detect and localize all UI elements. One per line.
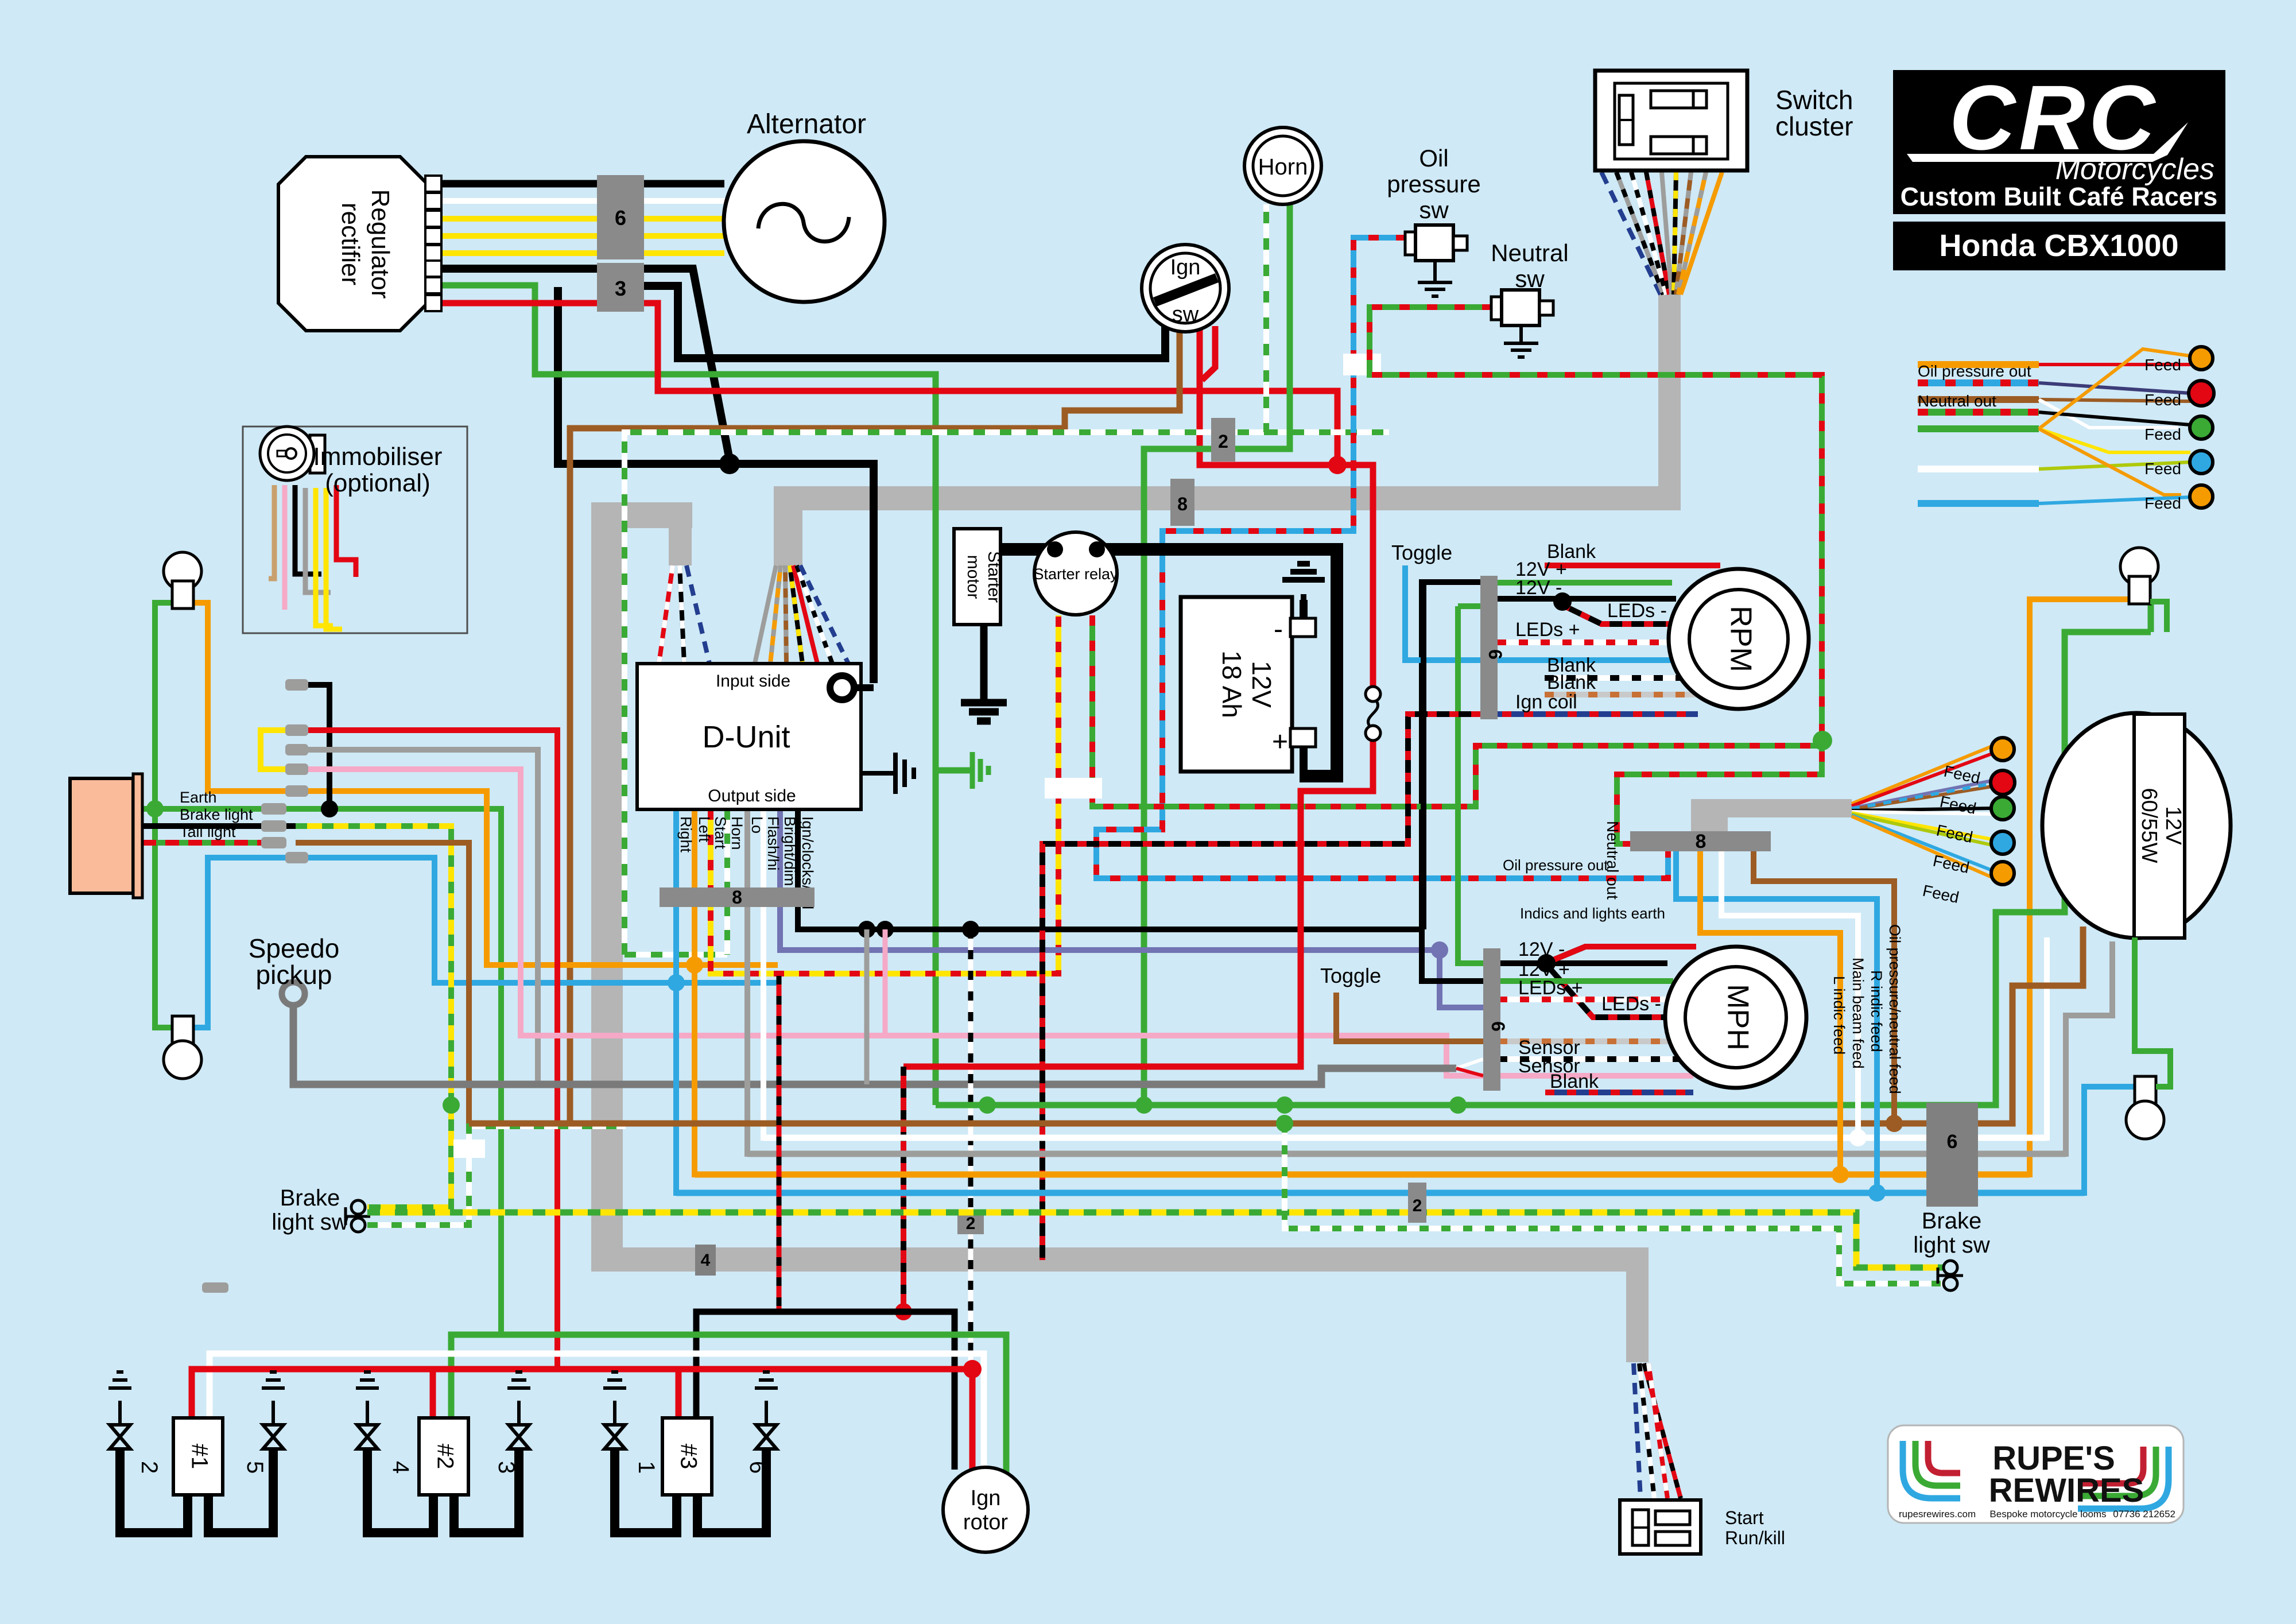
svg-text:Honda CBX1000: Honda CBX1000 — [1939, 228, 2178, 263]
svg-text:(optional): (optional) — [325, 469, 430, 497]
wire: RPM 12V- black with LED branch — [1497, 599, 1679, 624]
svg-text:12V: 12V — [1247, 661, 1277, 708]
CRC logo black box — [1893, 70, 2225, 214]
svg-text:#3: #3 — [676, 1444, 701, 1470]
svg-text:Blank: Blank — [1547, 672, 1596, 693]
wire: regulator black 2 with diagonal to D-unit terminal — [441, 269, 730, 463]
svg-text:sw: sw — [1515, 265, 1545, 292]
connector 4 on bottom trunk — [695, 1245, 716, 1276]
svg-text:#1: #1 — [187, 1444, 212, 1470]
connector 2 on indic buses — [1408, 1183, 1426, 1223]
black coil bus — [696, 1312, 955, 1470]
D-Unit box — [637, 664, 861, 809]
MPH gauge — [1665, 947, 1806, 1088]
top-right indicator bulb — [2120, 548, 2158, 586]
svg-text:3: 3 — [615, 277, 626, 300]
red drop to ign rotor — [969, 1369, 976, 1470]
speedo cable fan to MPH connector — [1456, 1059, 1483, 1068]
long bus: green indics and lights earth — [936, 602, 2151, 1105]
svg-text:Neutral out: Neutral out — [1604, 821, 1622, 900]
svg-text:Blank: Blank — [1550, 1071, 1599, 1092]
wire: starter motor to relay thick black — [1000, 543, 1055, 556]
svg-text:RPM: RPM — [1724, 606, 1757, 672]
wire: regulator green — [441, 285, 936, 1105]
D-unit ring terminal — [830, 676, 854, 700]
D-unit input fan from stub 2 — [755, 565, 848, 664]
svg-text:6: 6 — [1485, 649, 1506, 660]
svg-text:12V -: 12V - — [1518, 939, 1565, 960]
battery ground — [1282, 564, 1325, 618]
svg-text:Starter: Starter — [984, 551, 1003, 603]
svg-text:Neutral: Neutral — [1491, 239, 1568, 266]
svg-text:6: 6 — [1947, 1131, 1958, 1153]
wire: regulator yellow 3 to alternator — [441, 250, 724, 256]
long bus: white/green tail light — [1285, 1123, 1946, 1284]
svg-text:Output side: Output side — [708, 786, 796, 805]
wire: battery positive red feed — [903, 735, 1373, 1067]
wire: MPH 12V+ green — [1498, 978, 1673, 984]
wire: MPH 12V- black with branches — [1498, 947, 1696, 1017]
connector 6 (regulator/alternator) — [597, 175, 644, 259]
svg-text:L indic feed: L indic feed — [1830, 976, 1848, 1055]
svg-text:2: 2 — [966, 1214, 976, 1233]
wire: yellow U stub — [261, 730, 285, 769]
feed legend 2 fan wires — [1852, 746, 1992, 877]
svg-text:-: - — [1274, 614, 1283, 645]
svg-text:Regulator: Regulator — [366, 189, 394, 299]
cylinder 1 plug leads — [120, 1449, 188, 1533]
wire: black 12V- feed left of RPM connector — [1421, 582, 1426, 929]
feed legend 1: left stubs — [1918, 361, 2039, 368]
speedo pickup ring — [282, 982, 305, 1005]
wire: regulator white to alternator — [441, 198, 726, 204]
toggle switch (main) — [1366, 687, 1380, 701]
tail light unit — [70, 778, 133, 893]
D-unit input fan from stub 1 — [659, 565, 709, 664]
horn circle — [1244, 127, 1321, 204]
feed legend 2 labels — [1921, 762, 1982, 907]
svg-text:Ign: Ign — [971, 1486, 1001, 1510]
svg-text:rotor: rotor — [963, 1510, 1008, 1534]
svg-text:D-Unit: D-Unit — [702, 720, 790, 754]
ign switch key bar — [1155, 278, 1217, 302]
svg-text:Feed: Feed — [2144, 356, 2181, 374]
bullet connectors left — [261, 679, 308, 863]
svg-text:Brake: Brake — [280, 1185, 340, 1211]
D-unit output: Bright/dim purple — [780, 809, 1483, 1007]
wire: MPH toggle brown — [1336, 993, 1483, 1041]
D-unit output: Start yellow/red — [711, 615, 1058, 974]
spark plug 6 — [755, 1372, 778, 1425]
wire: MPH blank navy/red — [1545, 1090, 1693, 1095]
oil pressure sw body — [1405, 232, 1417, 255]
svg-text:Feed: Feed — [2144, 391, 2181, 409]
starter motor ground — [961, 625, 1007, 721]
svg-text:Custom Built Café Racers: Custom Built Café Racers — [1901, 182, 2218, 211]
svg-text:Oil pressure/neutral feed: Oil pressure/neutral feed — [1886, 924, 1903, 1094]
wire: red ign switch second stub — [1202, 326, 1215, 380]
svg-text:cluster: cluster — [1775, 111, 1853, 141]
fuse white box on oil pressure wire — [1343, 354, 1381, 375]
wire: green 12V+ feed RPM to MPH — [1458, 606, 1483, 963]
wire: left indicator green earth vertical (both bulbs) — [155, 603, 173, 1028]
svg-text:Oil: Oil — [1419, 145, 1448, 172]
green/white dashed brake sw lower right — [1839, 1284, 1946, 1287]
long bus: light blue R indic — [676, 1190, 2084, 1196]
svg-text:Oil pressure out: Oil pressure out — [1503, 856, 1608, 874]
svg-text:Tail light: Tail light — [180, 823, 236, 840]
ign rotor circle — [943, 1467, 1028, 1552]
svg-text:motor: motor — [964, 555, 983, 599]
junction dot red at 2330,810 — [1328, 456, 1347, 474]
long bus: orange L indic — [695, 1172, 2030, 1178]
connector 6 right — [1926, 1103, 1978, 1207]
svg-text:pressure: pressure — [1387, 170, 1480, 197]
spark plug 3 — [507, 1372, 530, 1425]
svg-text:Neutral out: Neutral out — [1918, 392, 1996, 410]
wire: brake yellow/green dashed — [296, 826, 451, 1207]
wire: black from connector 3 right to ign switch — [644, 286, 1165, 358]
connector 8 drops: white — [1721, 851, 1858, 1138]
purple junction dot — [1431, 941, 1448, 959]
svg-text:Indics and lights earth: Indics and lights earth — [1520, 905, 1665, 922]
svg-text:light sw: light sw — [1913, 1232, 1989, 1258]
connector 8 on main trunk — [1170, 479, 1194, 526]
wire: tail light black brake wire — [133, 823, 296, 829]
wire: MPH brown/gray — [1498, 1038, 1693, 1044]
cylinder 1 — [173, 1418, 223, 1495]
svg-text:sw: sw — [1172, 303, 1199, 327]
black/white drop from black bus to ign rotor red — [968, 929, 974, 1363]
wire: green zigzag from bottom-right bulb — [2135, 937, 2170, 1087]
svg-text:6: 6 — [745, 1461, 770, 1474]
alternator circle — [724, 141, 885, 302]
top-left indicator bulb — [164, 552, 201, 590]
svg-text:Speedo: Speedo — [249, 933, 340, 963]
MPH connector 6 — [1483, 948, 1500, 1091]
svg-text:Oil pressure out: Oil pressure out — [1918, 362, 2031, 380]
neutral sw body — [1491, 297, 1503, 320]
svg-text:Start: Start — [1725, 1507, 1764, 1528]
svg-text:18 Ah: 18 Ah — [1217, 650, 1247, 718]
cylinder 3 — [662, 1418, 712, 1495]
junction dot green on brake wire — [443, 1096, 460, 1114]
svg-text:Motorcycles: Motorcycles — [2055, 153, 2214, 186]
wire: RPM blank black/white — [1545, 675, 1696, 681]
wire: tail light red/green dashed — [133, 840, 264, 846]
green ground branch from green vertical — [936, 768, 971, 774]
wire: MPH sensor pink — [1498, 1073, 1693, 1079]
svg-text:Feed: Feed — [2144, 494, 2181, 512]
wire: brown from ign switch down-left and south to brown bus — [570, 326, 1180, 1123]
svg-text:8: 8 — [1177, 494, 1188, 514]
battery box — [1181, 597, 1292, 772]
oil pressure sw ground — [1418, 261, 1452, 296]
wire: green from top-right bulb — [2150, 602, 2167, 632]
gray harness trunk: main horizontal arm — [774, 486, 1681, 510]
white junction dot — [1849, 1129, 1867, 1146]
svg-text:MPH: MPH — [1721, 984, 1754, 1051]
immobiliser key switch symbol — [310, 435, 325, 473]
wire: MPH LEDs+ red/white — [1498, 997, 1682, 1002]
wire: oil pressure switch blue/red dashed — [1096, 238, 1668, 878]
wire: neutral switch green/red dashed — [1370, 307, 1822, 844]
svg-text:Run/kill: Run/kill — [1725, 1528, 1785, 1548]
wire: regulator black 1 to alternator — [441, 180, 724, 188]
svg-text:Switch: Switch — [1775, 85, 1853, 115]
svg-text:Toggle: Toggle — [1391, 541, 1452, 564]
switch cluster box — [1595, 71, 1747, 170]
svg-text:4: 4 — [701, 1251, 711, 1270]
feed legend 2 circles — [1991, 738, 2014, 761]
wire: relay green/red output — [1092, 615, 1822, 807]
svg-text:8: 8 — [1696, 831, 1707, 852]
svg-text:Ign coil: Ign coil — [1515, 691, 1577, 713]
svg-text:2: 2 — [137, 1461, 162, 1474]
battery terminal stubs — [1300, 600, 1308, 773]
svg-text:Alternator: Alternator — [747, 109, 866, 139]
wire: gray from connector to speedo cable — [305, 750, 538, 1084]
wire: RPM blank brown/gray — [1545, 692, 1698, 697]
regulator rectifier body — [278, 157, 428, 331]
junction dot green earth — [146, 800, 164, 817]
D-unit output: Flash/hi white — [763, 809, 2047, 1138]
svg-text:LEDs +: LEDs + — [1518, 977, 1583, 999]
svg-text:Lo: Lo — [748, 816, 766, 834]
RPM gauge — [1669, 569, 1809, 709]
svg-text:R indic feed: R indic feed — [1868, 970, 1885, 1052]
svg-text:+: + — [1272, 727, 1288, 757]
gray harness trunk: bottom-right vertical to start connector — [1626, 1247, 1649, 1362]
MPH labels — [1518, 939, 1661, 1092]
junction dot blue — [668, 974, 685, 991]
svg-text:LEDs -: LEDs - — [1607, 600, 1667, 622]
svg-text:LEDs +: LEDs + — [1515, 619, 1580, 641]
wire: top-left indicator orange — [192, 603, 778, 965]
feed legend 1: connecting wires — [2039, 349, 2190, 503]
wire: RPM LEDs+ red/white — [1497, 639, 1688, 645]
svg-text:4: 4 — [388, 1461, 413, 1474]
svg-text:Right: Right — [677, 816, 695, 853]
wire: red from connector down to cylinder feed — [305, 730, 557, 1369]
svg-text:sw: sw — [1419, 196, 1449, 223]
wire: relay to battery thick black — [1097, 549, 1337, 776]
svg-text:Ign: Ign — [1170, 255, 1201, 280]
spark plug 2 — [108, 1372, 131, 1425]
junction dot orange — [686, 956, 703, 974]
svg-text:REWIRES: REWIRES — [1989, 1472, 2144, 1509]
svg-text:Horn: Horn — [728, 816, 746, 850]
wire: red from ign switch — [1200, 327, 1373, 694]
wire: black feed into MPH connector — [1422, 929, 1483, 981]
wire: black stub from top connector — [305, 685, 329, 804]
wire: red/black dash ign feed down to coil bus — [901, 1067, 906, 1312]
ign switch circle — [1142, 245, 1229, 332]
battery terminals — [1290, 618, 1316, 637]
wire: regulator yellow 2 to alternator — [441, 233, 724, 239]
relay contacts — [1047, 541, 1063, 557]
black bus junction dots — [858, 921, 875, 938]
wire: earth from tail light to green bus junction — [133, 809, 501, 1335]
svg-text:Main beam feed: Main beam feed — [1849, 958, 1867, 1069]
svg-text:Brake: Brake — [1922, 1208, 1982, 1234]
bullet connector stub below brake sw — [202, 1282, 228, 1293]
feed legend 1: circles — [2190, 347, 2213, 370]
svg-text:Bespoke motorcycle looms: Bespoke motorcycle looms — [1989, 1509, 2106, 1520]
gray harness trunk: left vertical — [591, 502, 623, 1272]
svg-text:8: 8 — [732, 887, 742, 908]
wire: white/green dashed horn feed bus — [625, 204, 1389, 955]
svg-text:LEDs -: LEDs - — [1601, 993, 1661, 1015]
instrument trunk connector 8 — [1630, 831, 1771, 851]
spark plug 1 — [603, 1372, 626, 1425]
bottom-right indicator bulb — [2135, 1076, 2156, 1104]
junction dot black at 1270,808 — [719, 454, 740, 474]
junction dot red on black bus — [895, 1303, 912, 1320]
svg-text:Immobiliser: Immobiliser — [313, 443, 443, 471]
feed labels rotated right side — [1830, 924, 1903, 1094]
bottom-left indicator bulb — [172, 1016, 193, 1044]
long bus: gray lo beam — [747, 1151, 2066, 1157]
wire: bottom-left indicator light blue / speedo loop — [192, 858, 778, 1028]
svg-text:6: 6 — [1488, 1021, 1508, 1032]
starter motor box — [954, 529, 1000, 625]
svg-text:12V -: 12V - — [1515, 577, 1562, 599]
svg-text:Horn: Horn — [1258, 154, 1308, 180]
long bus: yellow/green brake light — [367, 1212, 1946, 1268]
svg-text:6: 6 — [615, 206, 626, 230]
spark plug 4 — [356, 1372, 379, 1425]
wire: ign coil feed to D-unit area — [1042, 714, 1480, 1260]
svg-text:Left: Left — [696, 816, 713, 843]
wire: regulator red — [441, 303, 1337, 465]
RPM connector 6 — [1480, 576, 1498, 719]
svg-text:07736 212652: 07736 212652 — [2113, 1509, 2175, 1520]
connector 8 drops: light blue — [1676, 851, 1877, 1193]
wire: tail brown — [296, 843, 469, 1123]
immobiliser wires — [269, 485, 274, 579]
headlight ellipse — [2042, 713, 2231, 938]
connector 8 (D-unit outputs) — [660, 887, 815, 907]
start/run-kill connector — [1620, 1500, 1701, 1554]
wire: RPM 12V+ green — [1497, 580, 1672, 586]
brake light sw right contacts — [1944, 1261, 1957, 1274]
svg-text:60/55W: 60/55W — [2137, 788, 2161, 863]
D-unit output: Horn green/white — [724, 809, 730, 955]
wire: RPM toggle light blue — [1497, 657, 1693, 663]
pink drop from black bus — [883, 929, 888, 1036]
D-unit output labels — [677, 816, 816, 909]
wire: green horn feed down to 2-connector and green vertical — [1144, 204, 1290, 1105]
D-unit output: Left orange — [695, 599, 2128, 1175]
Honda CBX1000 box — [1893, 222, 2225, 270]
gray harness trunk: switch cluster vertical — [1658, 294, 1681, 510]
switch cluster fan wires — [1601, 172, 1722, 294]
starter relay circle — [1034, 532, 1117, 615]
wire: regulator yellow 1 to alternator — [441, 216, 725, 222]
wire: RPM blank red — [1545, 563, 1720, 568]
wire: MPH sensor black/white — [1498, 1056, 1693, 1062]
svg-text:2: 2 — [1413, 1196, 1422, 1215]
connector 2 on black/white drop — [957, 1212, 984, 1234]
long bus: brown oil pressure/neutral feed — [469, 927, 2083, 1123]
junction dots on green bus — [979, 1096, 996, 1114]
svg-text:Start: Start — [712, 816, 729, 850]
brake light sw left white/green wire — [367, 1126, 626, 1225]
svg-text:Input side: Input side — [716, 672, 790, 691]
RPM labels — [1515, 541, 1667, 713]
svg-text:2: 2 — [1218, 431, 1228, 452]
svg-text:#2: #2 — [432, 1444, 457, 1470]
svg-text:Flash/hi: Flash/hi — [765, 816, 782, 871]
svg-text:Feed: Feed — [2144, 460, 2181, 478]
svg-text:pickup: pickup — [256, 960, 332, 990]
D-unit output: Right light blue — [676, 809, 2136, 1193]
rupes rewires logo — [1888, 1425, 2183, 1523]
connector 2 (horn circuit) — [1211, 418, 1235, 462]
neutral sw ground — [1504, 325, 1538, 357]
svg-text:Bright/dim: Bright/dim — [781, 816, 798, 886]
gray harness trunk: RPM/MPH instrument stub — [1691, 799, 1852, 817]
svg-text:Feed: Feed — [2144, 425, 2181, 443]
fuse on relay wires — [1045, 778, 1102, 799]
spark plug 5 — [262, 1372, 285, 1425]
gray harness trunk: D-unit stub 2 — [774, 505, 802, 565]
green coil bus — [451, 1335, 1006, 1476]
wire: RPM ign coil navy/red — [1480, 711, 1698, 717]
wire: pink from connector to MPH sensor — [305, 769, 1483, 1076]
cylinder 2 — [419, 1418, 468, 1495]
D-unit output: Ign/clocks/tail black — [798, 582, 1480, 929]
alternator sine symbol — [758, 204, 849, 241]
gray drop from black bus to speedo cable — [864, 929, 870, 1084]
red coil bus — [192, 1369, 972, 1418]
svg-text:Earth: Earth — [180, 789, 217, 806]
regulator pins — [425, 176, 441, 311]
svg-text:5: 5 — [242, 1461, 267, 1474]
svg-text:1: 1 — [634, 1461, 659, 1474]
speedo gray cable — [293, 1004, 1456, 1084]
connector 8 drops: brown — [1754, 851, 1894, 1123]
gray harness trunk: top-left arm to D-unit stub 1 — [591, 502, 692, 528]
svg-text:Toggle: Toggle — [1320, 964, 1381, 987]
green ground symbol — [972, 752, 988, 789]
svg-text:12V: 12V — [2161, 806, 2185, 845]
svg-text:rectifier: rectifier — [336, 203, 364, 285]
start/run-kill fan wires — [1634, 1363, 1681, 1498]
gray harness trunk: bottom horizontal — [591, 1247, 1649, 1272]
svg-text:Starter relay: Starter relay — [1033, 565, 1118, 583]
connector 8 drops: orange — [1700, 851, 1840, 1175]
connector 3 (regulator/alternator) — [597, 263, 644, 312]
svg-text:3: 3 — [494, 1461, 519, 1474]
svg-text:light sw: light sw — [272, 1210, 348, 1235]
D-unit ground — [861, 753, 914, 794]
immobiliser box — [243, 427, 467, 633]
svg-text:rupesrewires.com: rupesrewires.com — [1899, 1509, 1976, 1520]
junction dot green at 3176,1290 — [1813, 731, 1832, 750]
long bus: white main beam — [763, 1135, 2047, 1141]
red/black dashed drop to coil bus — [777, 976, 782, 1312]
svg-text:Brake light: Brake light — [180, 806, 253, 823]
wire: toggle light blue to RPM connector — [1405, 565, 1480, 660]
fuse on brake wire — [453, 1139, 485, 1158]
brake light sw left contacts — [351, 1200, 365, 1214]
junction dot black on earth wire — [321, 800, 338, 817]
wire: black loop from connector 3 down and right to D-unit ring — [558, 287, 874, 683]
white coil bus — [210, 1354, 984, 1471]
D-unit output: Lo gray — [747, 809, 2112, 1154]
